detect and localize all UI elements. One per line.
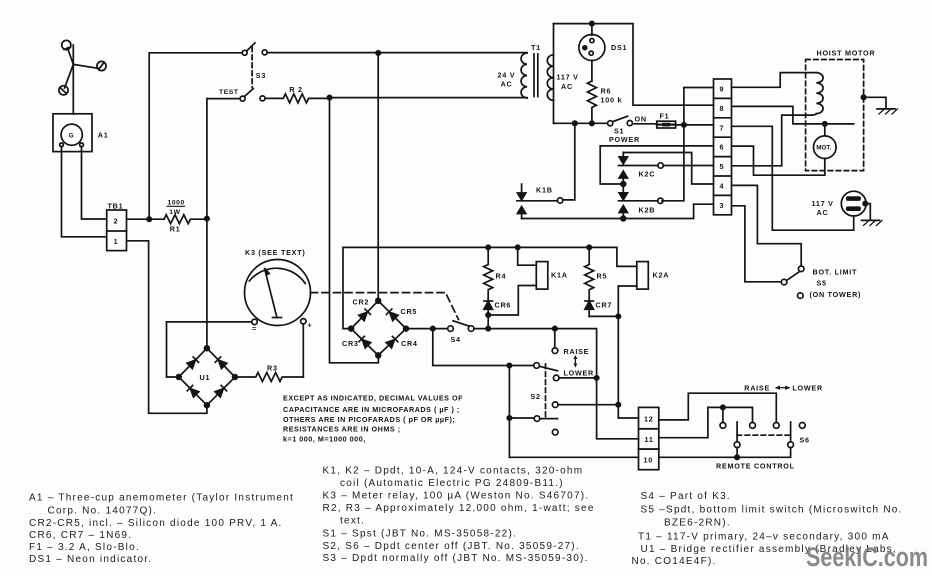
svg-text:S5: S5 [817, 279, 827, 288]
wire terminal 9 to hoist coil top [732, 73, 817, 88]
svg-text:CR7: CR7 [596, 301, 613, 310]
wire R2 node to T1 primary bottom [330, 97, 528, 99]
switch S3 lower pole arm [245, 89, 254, 97]
svg-text:117 V: 117 V [812, 199, 834, 208]
wire CR6 node down to S4 output line [487, 315, 489, 329]
K3 needle [264, 268, 281, 318]
power plug 117V AC circle [841, 191, 866, 216]
wire S3 upper-pole left rail down to R1 node [149, 53, 242, 219]
diode bridge CR2-CR5 diamond [351, 301, 406, 356]
resistor R1 [164, 215, 207, 224]
S6 contact circle 3 [773, 423, 779, 429]
svg-text:1W: 1W [169, 209, 180, 216]
svg-text:K1, K2 – Dpdt, 10-A, 124-V c: K1, K2 – Dpdt, 10-A, 124-V contacts, 320… [323, 466, 584, 477]
node plug right [863, 201, 867, 205]
svg-text:1000: 1000 [168, 199, 185, 206]
switch S4 arm [453, 321, 469, 326]
wire K1A bottom stub to CR6 node [490, 286, 536, 316]
relay contact K1B lower arrow [517, 207, 525, 219]
svg-text:OTHERS ARE IN PICOFARADS ( pF: OTHERS ARE IN PICOFARADS ( pF OR µµF); [283, 415, 455, 424]
switch S2 pole1 contact circle [534, 363, 540, 369]
contact RAISE circle [552, 348, 558, 354]
switch S5 lower contact circle [798, 293, 804, 299]
terminal box 11 [639, 429, 659, 449]
svg-text:K2B: K2B [639, 206, 656, 215]
plug prong lower [846, 206, 861, 211]
S6 pole circle left [734, 442, 740, 448]
svg-text:R6: R6 [601, 87, 612, 96]
svg-text:R3: R3 [267, 364, 278, 373]
node DS1 top feed [590, 21, 594, 25]
relay contact K2C upper arrow [619, 153, 627, 164]
wire K1B lower to bottom common line [522, 204, 714, 218]
S6 contact circle 4 [799, 423, 805, 429]
neon indicator DS1 envelope [579, 24, 605, 61]
resistor R2 [265, 94, 330, 103]
wire TB1-2 to R1 left node [127, 218, 165, 220]
CR bridge junction left [349, 326, 354, 331]
relay contact K2C upper feed [623, 153, 713, 185]
wire terminal 6 to MOT bottom [732, 146, 825, 175]
svg-text:LOWER: LOWER [792, 384, 823, 393]
hoist motor winding [816, 73, 823, 114]
wire S4 output line to RAISE node and down-corner [488, 329, 596, 378]
wire CR bridge top feed vertical [377, 53, 379, 301]
K3 terminal plus [301, 319, 306, 324]
wire terminal 11 to S6 overhead [659, 407, 753, 437]
svg-text:TEST: TEST [219, 89, 239, 96]
switch S4 left contact [448, 326, 454, 332]
svg-text:TB1: TB1 [108, 201, 124, 210]
fuse F1 [657, 121, 676, 128]
relay contact K2C lower arrow [619, 171, 627, 184]
relay rail node R4 top [486, 245, 490, 249]
wire terminal 10 remote control line [659, 448, 791, 458]
diode CR3 [359, 336, 371, 348]
svg-text:K3 – Meter relay, 100 µA (We: K3 – Meter relay, 100 µA (Weston No. S46… [323, 491, 590, 502]
wire terminal 5 to hoist coil bottom [732, 114, 817, 166]
svg-text:R4: R4 [496, 271, 507, 280]
CR bridge junction top [376, 298, 381, 303]
svg-text:RAISE: RAISE [744, 384, 770, 393]
S2 mechanical dashed link [545, 364, 547, 419]
svg-text:+: + [308, 320, 313, 329]
terminal box 12 [639, 407, 659, 428]
node S6 overhead junction [721, 405, 725, 409]
svg-text:K1B: K1B [536, 186, 553, 195]
svg-text:CAPACITANCE ARE IN MICROFARADS: CAPACITANCE ARE IN MICROFARADS ( µF ) ; [283, 405, 460, 414]
wire S2 middle contact to K2A column [558, 404, 618, 406]
wire K1A feed drop and top stub [518, 247, 537, 265]
contact S2 middle circle [552, 402, 558, 408]
transformer T1 primary winding [521, 53, 527, 98]
relay rail node K1A feed [516, 245, 520, 249]
resistor R6 [587, 81, 596, 123]
svg-text:S4: S4 [451, 335, 461, 344]
svg-text:T1: T1 [531, 43, 541, 52]
relay contact K1B circle [557, 198, 562, 203]
meter relay K3 body [245, 260, 311, 326]
A1 terminal right [80, 143, 84, 147]
U1 corner junction left [176, 375, 181, 380]
CR bridge junction right [404, 326, 409, 331]
wire TEST switch left down to R1 right node and on to U1 bridge top [206, 99, 208, 349]
anemometer A1 generator housing box [53, 114, 92, 152]
svg-text:AC: AC [561, 82, 573, 91]
svg-text:S4 – Part of K3.: S4 – Part of K3. [641, 491, 731, 502]
terminal box 10 [639, 449, 659, 470]
node LOWER junction [594, 376, 598, 380]
U1 corner junction bottom [205, 403, 210, 408]
svg-text:CR6: CR6 [495, 301, 512, 310]
relay contact K2B upper arrow [619, 184, 627, 200]
wire K2A node down to S2 middle contact line [617, 316, 619, 404]
wire 117V loop left side [553, 24, 555, 124]
svg-text:3: 3 [720, 201, 725, 210]
generator G circle [61, 124, 82, 145]
node R2 output junction [327, 95, 331, 99]
S3 mechanical link dashed [251, 47, 253, 88]
chassis ground hoist [864, 97, 898, 114]
svg-text:CR5: CR5 [401, 307, 418, 316]
wire F1 to terminal 7 [676, 124, 714, 126]
svg-text:=: = [252, 324, 257, 333]
svg-text:T1 – 117-V primary, 24–v secon: T1 – 117-V primary, 24–v secondary, 300 … [638, 531, 890, 542]
node S2 pole tie upper [507, 363, 511, 367]
svg-text:S3 – Dpdt normally off (JBT: S3 – Dpdt normally off (JBT No. MS-35059… [323, 553, 589, 564]
svg-text:100 k: 100 k [601, 96, 623, 105]
svg-text:1: 1 [114, 237, 119, 246]
svg-text:8: 8 [720, 104, 725, 113]
node CR6 cathode junction [486, 313, 490, 317]
relay contact K1B line [517, 200, 558, 202]
node S4 line at vertical drop [431, 326, 435, 330]
svg-text:4: 4 [720, 182, 725, 191]
svg-text:Corp. No. 14077Q).: Corp. No. 14077Q). [48, 505, 158, 516]
svg-text:7: 7 [720, 123, 725, 132]
A1 terminal left [60, 143, 64, 147]
label R1 fraction bar [167, 205, 186, 207]
svg-text:EXCEPT AS INDICATED, DECIMAL V: EXCEPT AS INDICATED, DECIMAL VALUES OF [283, 394, 463, 403]
wire terminal 12 to S6 raise-lower overhead [659, 393, 777, 422]
wire S3 upper right to T1 primary top [267, 52, 527, 54]
wire rail to K2A drop [589, 247, 637, 266]
svg-text:No. CO14E4F).: No. CO14E4F). [632, 556, 717, 567]
node S4 output at CR6 column [486, 326, 490, 330]
wire K2A bottom stub down to CR7 node [618, 286, 637, 316]
wire 117V bottom rail to S1 [554, 122, 608, 124]
U1 diode lower-right [215, 385, 227, 397]
contact LOWER circle [553, 375, 559, 381]
relay contact K2B circle [658, 198, 663, 203]
wire S2 tie down to terminal 10 line [509, 456, 638, 458]
U1 diode upper-right [215, 357, 227, 369]
node hoist frame ground [861, 95, 865, 99]
svg-text:S6: S6 [800, 436, 810, 445]
switch S1 arm [613, 116, 628, 121]
wire CR bridge left corner up to relay rail [343, 247, 589, 328]
svg-text:11: 11 [645, 435, 654, 444]
resistor R4 [484, 247, 493, 298]
svg-text:ON: ON [635, 115, 647, 124]
wire LOWER contact to drop node [559, 377, 597, 379]
node RAISE stem junction [553, 326, 557, 330]
switch S3 lower pole (TEST) left contact [240, 96, 245, 101]
wire A1 right terminal to TB1-2 [82, 147, 107, 219]
node MOT top [823, 122, 827, 126]
svg-text:S1 – Spst (JBT No. MS-35058-22: S1 – Spst (JBT No. MS-35058-22). [323, 528, 518, 539]
diode CR6 [484, 298, 493, 315]
svg-text:K2C: K2C [639, 170, 656, 179]
node CR7/K2A junction [616, 314, 620, 318]
svg-text:LOWER: LOWER [564, 368, 595, 377]
svg-text:S2, S6 – Dpdt center off (JBT.: S2, S6 – Dpdt center off (JBT. No. 35059… [323, 541, 580, 552]
svg-text:CR3: CR3 [342, 339, 359, 348]
wire K1B drop from bottom rail [563, 123, 575, 200]
svg-text:S3: S3 [256, 71, 266, 80]
wire DS1 to R6 [591, 61, 593, 82]
svg-text:POWER: POWER [609, 135, 640, 144]
S6 pole stem left [736, 422, 738, 442]
switch S3 lower pole right contact [260, 96, 265, 101]
wire K3 plus down to R3 right [302, 324, 304, 377]
svg-text:BOT. LIMIT: BOT. LIMIT [813, 268, 858, 277]
svg-text:CR4: CR4 [401, 339, 418, 348]
DS1 dot [583, 46, 587, 50]
svg-text:24 V: 24 V [498, 71, 516, 80]
svg-text:U1: U1 [200, 373, 211, 382]
switch S2 pole2 contact circle [534, 416, 540, 422]
wire LOWER node down to terminal 11 [597, 378, 639, 439]
node S2 middle junction [616, 403, 620, 407]
hoist motor enclosure dashed [806, 60, 864, 171]
svg-text:F1 – 3.2 A, Slo-Blo.: F1 – 3.2 A, Slo-Blo. [29, 542, 140, 553]
svg-text:S5 –Spdt, bottom limit switch: S5 –Spdt, bottom limit switch (Microswit… [641, 505, 903, 516]
diode CR4 [386, 336, 398, 348]
svg-text:CR6, CR7 – 1N69.: CR6, CR7 – 1N69. [29, 530, 132, 541]
wire CR7 bottom to K2A node [589, 315, 618, 317]
switch S1 left contact [608, 121, 613, 126]
svg-text:RAISE: RAISE [564, 347, 590, 356]
switch S3 upper pole right contact [262, 50, 267, 55]
node bottom rail R6 [590, 121, 594, 125]
resistor R3 [235, 373, 304, 382]
svg-text:SeekIC.com: SeekIC.com [806, 542, 928, 572]
relay rail node R5 top [587, 245, 591, 249]
wire S3 lower left to TEST rail [207, 98, 240, 100]
terminal strip 9-3 outline [714, 79, 732, 215]
terminal block TB1 outline [107, 210, 127, 251]
switch S1 right contact [627, 121, 632, 126]
diode CR7 [585, 298, 594, 316]
svg-text:A1 – Three-cup anemometer (T: A1 – Three-cup anemometer (Taylor Instru… [29, 493, 294, 504]
plug prong upper [846, 196, 861, 201]
anemometer cup bottom-left [59, 86, 68, 95]
switch S2 pole2 arm [540, 418, 558, 420]
node bottom rail K1B drop [573, 121, 577, 125]
diode CR2 [359, 309, 371, 321]
svg-text:117 V: 117 V [557, 73, 579, 82]
wire K2A node corner into terminal 12 [618, 405, 638, 418]
svg-text:AC: AC [501, 80, 513, 89]
svg-text:K2A: K2A [653, 270, 670, 279]
relay coil K1A box [536, 262, 548, 290]
DS1 electrode top [590, 39, 594, 43]
svg-text:6: 6 [720, 143, 725, 152]
relay contact K2B lower arrow [619, 206, 627, 219]
wire terminal 8 to motor node [732, 106, 854, 124]
wire S1 to fuse F1 [632, 123, 656, 125]
anemometer cup top-left [62, 40, 71, 49]
svg-text:S2: S2 [531, 392, 541, 401]
bridge rectifier U1 diamond [179, 348, 235, 405]
svg-text:12: 12 [644, 414, 654, 423]
svg-text:A1: A1 [98, 130, 109, 139]
wire K2C circle to terminal 5 [663, 165, 713, 167]
contact S2 bottom open circle [552, 429, 558, 435]
node K2C K2B common [621, 182, 626, 187]
K3 terminal minus [252, 319, 257, 324]
svg-text:(ON TOWER): (ON TOWER) [810, 290, 862, 299]
wire S6 first contact stem [722, 407, 724, 422]
wire S6 pole left stem to remote line [736, 448, 738, 458]
wire S4 right to CR6 node [474, 328, 488, 330]
svg-text:text.: text. [340, 515, 365, 526]
svg-text:BZE6-2RN).: BZE6-2RN). [664, 517, 731, 528]
wire S2 pole tie vertical [508, 366, 510, 458]
svg-text:5: 5 [720, 162, 725, 171]
switch S5 common circle [781, 279, 787, 285]
svg-text:2: 2 [114, 217, 119, 226]
relay contact K1B upper arrow [517, 184, 525, 200]
DS1 electrode bottom [589, 51, 593, 55]
switch S5 upper contact circle [798, 266, 804, 272]
node F1 output [682, 123, 686, 127]
transformer T1 core [534, 54, 538, 97]
arrow raise-lower small [574, 357, 576, 366]
wire RAISE stem [554, 329, 556, 348]
svg-text:HOIST MOTOR: HOIST MOTOR [817, 49, 876, 58]
S6 mechanical dashed link [737, 434, 791, 436]
anemometer cup right [97, 61, 106, 70]
svg-text:G: G [69, 132, 74, 139]
switch S4 right contact [468, 326, 474, 332]
diode CR5 [386, 309, 398, 321]
anemometer A1 rotor shaft [72, 45, 74, 114]
svg-text:MOT.: MOT. [816, 145, 831, 152]
CR bridge junction bottom [376, 353, 381, 358]
switch S3 upper pole left contact [242, 50, 247, 55]
relay coil K2A box [637, 262, 649, 290]
S6 pole circle right [788, 442, 794, 448]
svg-text:10: 10 [644, 456, 654, 465]
svg-text:k=1 000, M=1000 000,: k=1 000, M=1000 000, [283, 434, 366, 443]
svg-text:K1A: K1A [551, 270, 568, 279]
anemometer cup arm top-left [68, 48, 74, 64]
S6 pole stem right [790, 422, 792, 442]
wire MOT top stem [824, 124, 826, 136]
svg-text:R 2: R 2 [289, 85, 302, 94]
wire S2 pole2 from tie node [509, 417, 534, 419]
wire TB1-1 right to lower left rail [127, 241, 207, 413]
svg-text:K3 (SEE TEXT): K3 (SEE TEXT) [245, 248, 305, 257]
node top rail at CR bridge feed [376, 51, 380, 55]
node R1 right junction [205, 216, 209, 220]
motor MOT circle [814, 136, 837, 159]
node S2 pole tie lower [507, 416, 511, 420]
wire 117V top rail [554, 24, 714, 106]
wire R2 node down to U1 loop bottom [330, 98, 379, 363]
wire A1 left terminal to TB1-1 [62, 147, 107, 237]
wire K3 minus to U1 bridge left corner [167, 322, 252, 377]
svg-text:DS1: DS1 [611, 43, 627, 52]
svg-text:R1: R1 [170, 225, 181, 234]
svg-text:AC: AC [817, 208, 829, 217]
wire common node to terminal 6 [600, 146, 713, 184]
S6 contact circle 1 [720, 423, 726, 429]
svg-text:coil (Automatic Electric PG 24: coil (Automatic Electric PG 24809-B11.) [340, 478, 564, 489]
wire CR bridge right corner to S4 [406, 328, 448, 330]
node R1 left junction [147, 217, 151, 221]
resistor R5 [585, 247, 594, 298]
svg-text:9: 9 [720, 85, 725, 94]
switch S5 arm [787, 272, 800, 281]
svg-text:REMOTE CONTROL: REMOTE CONTROL [716, 461, 795, 470]
wire F1 node down to K2B contact [662, 125, 684, 201]
anemometer cup arm bottom-left [65, 64, 74, 88]
svg-text:R5: R5 [597, 271, 608, 280]
transformer T1 secondary winding [547, 55, 553, 101]
U1 corner junction right [233, 375, 238, 380]
wire S4 line corner down to S2 pole1 [433, 329, 534, 366]
terminal strip dividers [714, 98, 732, 195]
svg-text:RESISTANCES ARE IN OHMS ;: RESISTANCES ARE IN OHMS ; [283, 425, 401, 434]
switch S3 upper pole arm [247, 43, 255, 51]
K3 scale arc [249, 268, 305, 283]
wire terminal 7 to plug bottom [732, 126, 854, 230]
relay contact K2B line [619, 200, 658, 202]
svg-text:DS1 – Neon indicator.: DS1 – Neon indicator. [29, 554, 152, 565]
svg-text:CR2-CR5, incl. – Silicon diode: CR2-CR5, incl. – Silicon diode 100 PRV, … [29, 518, 283, 529]
svg-text:F1: F1 [660, 111, 670, 120]
wire terminal 4 down to S5 [732, 185, 802, 266]
wire F1 node up to terminal 9 [684, 88, 714, 125]
K3 to S4 mechanical dashed link [311, 293, 459, 320]
S6 contact circle 2 [750, 423, 756, 429]
wire terminal 3 down to S5 common [732, 206, 782, 282]
relay contact K2C line [619, 165, 658, 167]
node K2B lower stem on common line [621, 216, 626, 221]
svg-text:R2, R3 – Approximately 12,000: R2, R3 – Approximately 12,000 ohm, 1-wat… [323, 503, 595, 514]
svg-text:CR2: CR2 [353, 298, 370, 307]
switch S2 pole1 arm [539, 366, 557, 371]
U1 diode lower-left [187, 385, 199, 397]
anemometer cup arm right [73, 64, 98, 68]
U1 diode upper-left [187, 357, 199, 369]
chassis ground plug [862, 204, 883, 226]
relay contact K2C circle [658, 163, 663, 168]
node remote line at S6 pole left [735, 455, 739, 459]
U1 corner junction top [205, 346, 210, 351]
